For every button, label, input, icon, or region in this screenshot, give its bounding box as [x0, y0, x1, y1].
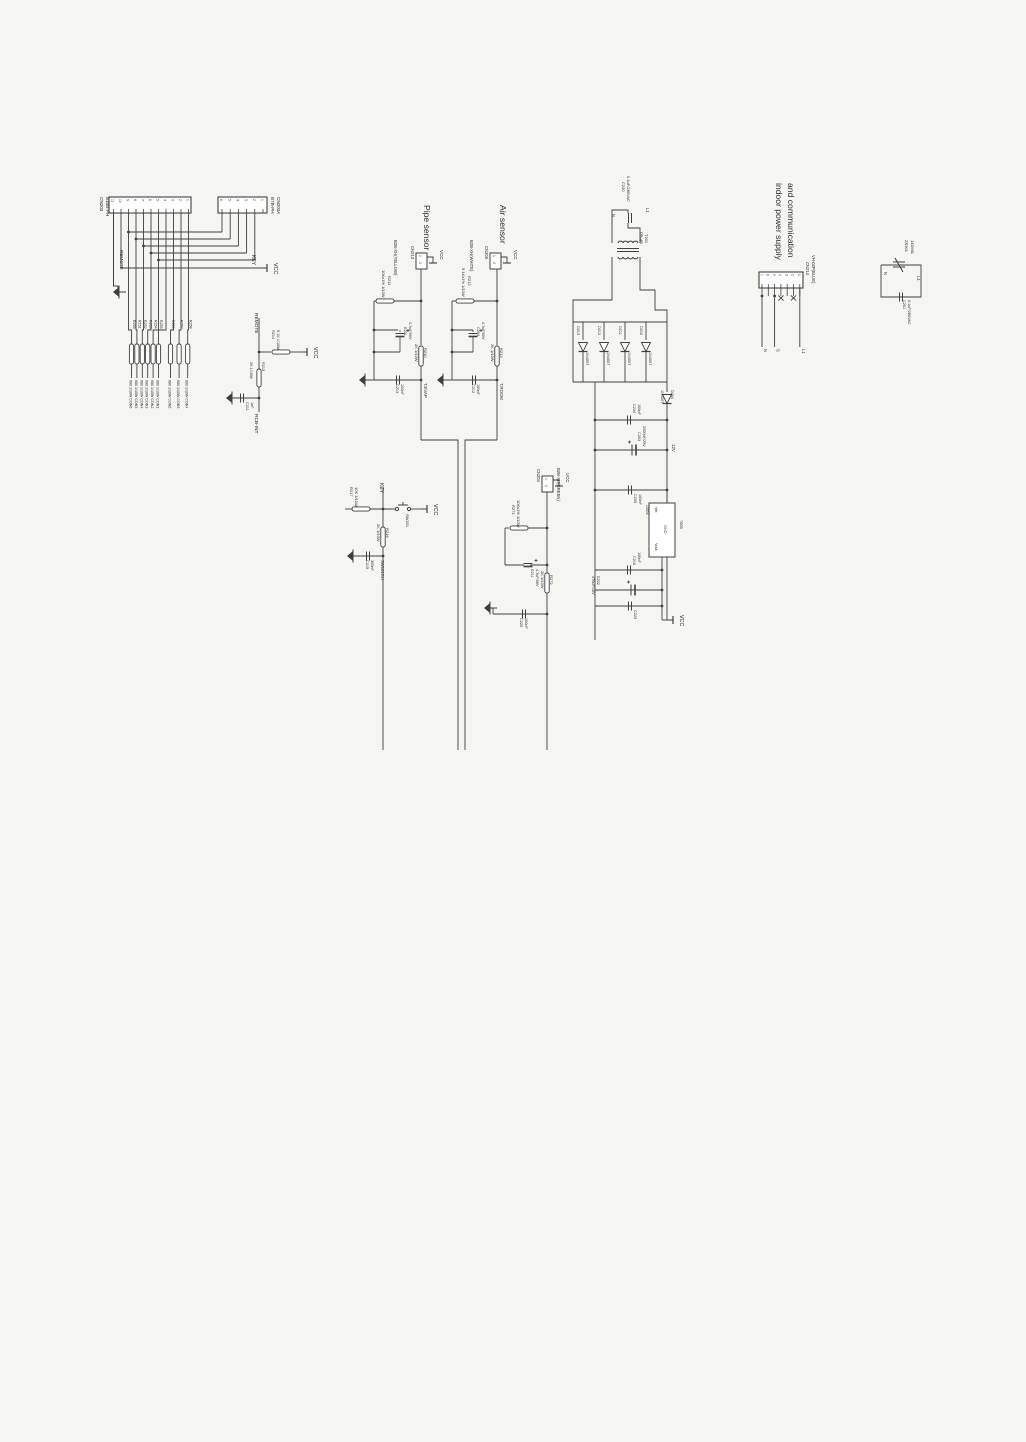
- svg-text:REMOTE: REMOTE: [119, 250, 124, 270]
- svg-text:6: 6: [766, 274, 770, 276]
- svg-text:Vout: Vout: [654, 543, 658, 552]
- svg-text:C212: C212: [471, 384, 475, 393]
- svg-text:C203: C203: [637, 432, 641, 441]
- svg-text:7: 7: [141, 199, 145, 201]
- svg-text:10: 10: [118, 199, 122, 203]
- svg-text:Pipe sensor: Pipe sensor: [422, 205, 432, 251]
- svg-text:2: 2: [178, 199, 182, 201]
- svg-text:B10B-PH: B10B-PH: [105, 197, 110, 216]
- svg-text:2: 2: [252, 199, 256, 201]
- svg-text:100nF: 100nF: [638, 494, 642, 505]
- svg-text:D204: D204: [670, 390, 674, 399]
- svg-text:L1: L1: [801, 349, 806, 354]
- svg-text:5: 5: [156, 199, 160, 201]
- svg-text:VCC: VCC: [272, 263, 278, 274]
- svg-text:1: 1: [186, 199, 190, 201]
- svg-text:indoor power supply: indoor power supply: [774, 183, 784, 261]
- svg-text:SW101CH: SW101CH: [380, 560, 385, 580]
- svg-text:R211: R211: [387, 276, 392, 286]
- svg-text:680 1/10W CON3: 680 1/10W CON3: [145, 380, 149, 408]
- svg-text:1nF: 1nF: [250, 402, 254, 409]
- svg-text:1: 1: [797, 274, 801, 276]
- svg-text:4.7uF/50V: 4.7uF/50V: [481, 322, 485, 340]
- svg-text:2K 1/10W: 2K 1/10W: [490, 344, 495, 362]
- svg-text:7: 7: [759, 274, 763, 276]
- svg-text:4.7uF/50V: 4.7uF/50V: [408, 322, 412, 340]
- svg-text:D213: D213: [576, 326, 580, 335]
- svg-text:4.7uF/50V: 4.7uF/50V: [535, 569, 539, 587]
- svg-text:VCC: VCC: [513, 250, 518, 260]
- svg-text:C213: C213: [395, 384, 399, 393]
- svg-text:12V: 12V: [671, 444, 676, 452]
- svg-text:R258: R258: [188, 320, 192, 329]
- svg-text:10Kx1% 1/10W: 10Kx1% 1/10W: [381, 270, 386, 298]
- svg-text:Air sensor: Air sensor: [498, 205, 508, 244]
- svg-text:C215: C215: [365, 560, 369, 569]
- svg-text:1N4007: 1N4007: [585, 352, 589, 365]
- svg-text:Vin: Vin: [654, 507, 658, 512]
- svg-text:6: 6: [148, 199, 152, 201]
- svg-text:7805: 7805: [679, 520, 684, 530]
- svg-text:VCC: VCC: [565, 473, 570, 483]
- svg-text:CN203: CN203: [99, 197, 104, 212]
- svg-text:E201: E201: [403, 327, 407, 336]
- svg-text:R253: R253: [148, 320, 152, 329]
- svg-text:E211: E211: [530, 569, 534, 578]
- svg-text:1: 1: [492, 255, 496, 257]
- svg-text:T.EVAP: T.EVAP: [423, 383, 428, 398]
- svg-text:VH-03P(BLUE): VH-03P(BLUE): [811, 255, 816, 284]
- svg-text:11: 11: [111, 199, 115, 203]
- svg-text:680 1/10W CON4: 680 1/10W CON4: [139, 380, 143, 408]
- svg-text:6: 6: [219, 199, 223, 201]
- svg-text:R257: R257: [180, 320, 184, 329]
- svg-text:10Kx1% 1/10W: 10Kx1% 1/10W: [516, 500, 521, 528]
- svg-text:N: N: [883, 272, 888, 275]
- svg-text:D212: D212: [597, 326, 601, 335]
- svg-text:1: 1: [260, 199, 264, 201]
- svg-text:R210: R210: [423, 348, 428, 358]
- svg-text:100nF: 100nF: [637, 404, 641, 415]
- svg-text:B2B-XH(YELLOW): B2B-XH(YELLOW): [393, 240, 398, 276]
- svg-text:R216: R216: [385, 528, 390, 538]
- svg-text:D210: D210: [639, 326, 643, 335]
- svg-text:2K 1/10W: 2K 1/10W: [540, 571, 545, 589]
- svg-text:0.1uF/280VAC: 0.1uF/280VAC: [626, 176, 631, 202]
- svg-text:T201: T201: [644, 234, 649, 244]
- svg-text:CN203A: CN203A: [276, 197, 281, 215]
- svg-text:C211: C211: [245, 402, 249, 411]
- svg-text:2200uF/25V: 2200uF/25V: [642, 426, 646, 447]
- svg-text:N: N: [763, 349, 768, 352]
- svg-text:3: 3: [171, 199, 175, 201]
- svg-text:2: 2: [418, 262, 422, 264]
- svg-text:and communication: and communication: [786, 183, 796, 258]
- svg-text:100nF: 100nF: [637, 552, 641, 563]
- svg-text:2K 1/10W: 2K 1/10W: [414, 344, 419, 362]
- svg-text:R217: R217: [349, 487, 354, 497]
- svg-text:680 1/10W CON6: 680 1/10W CON6: [129, 380, 133, 408]
- svg-text:VCC: VCC: [439, 250, 444, 260]
- svg-text:R254: R254: [154, 320, 158, 329]
- svg-text:VCC: VCC: [312, 347, 318, 358]
- svg-text:5.1K 1/10W: 5.1K 1/10W: [276, 330, 280, 350]
- svg-text:KEY: KEY: [250, 255, 256, 266]
- svg-text:C205: C205: [633, 494, 637, 503]
- svg-text:1N4007: 1N4007: [627, 352, 631, 365]
- svg-text:2: 2: [492, 262, 496, 264]
- svg-text:R272: R272: [549, 575, 554, 585]
- svg-text:B2B-XH(GREEN): B2B-XH(GREEN): [556, 468, 561, 501]
- svg-text:C251: C251: [902, 300, 906, 309]
- svg-text:0.1uF/280VAC: 0.1uF/280VAC: [907, 300, 911, 325]
- svg-text:680 1/10W CON1: 680 1/10W CON1: [156, 380, 160, 408]
- svg-text:R271: R271: [511, 505, 516, 515]
- svg-text:L1: L1: [916, 276, 921, 281]
- svg-text:L1: L1: [645, 208, 650, 213]
- svg-text:2K 1/10W: 2K 1/10W: [249, 362, 253, 379]
- svg-text:VCC: VCC: [432, 504, 438, 515]
- svg-text:E202: E202: [596, 576, 600, 585]
- svg-text:VCC: VCC: [678, 615, 684, 626]
- svg-text:100nF: 100nF: [476, 384, 480, 395]
- svg-text:1N4007: 1N4007: [660, 390, 664, 403]
- svg-text:3: 3: [244, 199, 248, 201]
- svg-text:CN204: CN204: [536, 469, 541, 483]
- svg-text:100nF: 100nF: [400, 384, 404, 395]
- svg-text:2: 2: [791, 274, 795, 276]
- svg-text:470uF/16V: 470uF/16V: [591, 576, 595, 595]
- svg-text:C223: C223: [633, 610, 637, 619]
- svg-text:R251: R251: [138, 320, 142, 329]
- svg-text:C220: C220: [621, 182, 626, 192]
- svg-text:C210: C210: [632, 556, 636, 565]
- svg-text:S: S: [776, 349, 781, 352]
- svg-text:B2B-XH(WHITE): B2B-XH(WHITE): [469, 240, 474, 272]
- svg-text:R256: R256: [171, 320, 175, 329]
- svg-text:R215: R215: [261, 362, 265, 371]
- svg-text:8: 8: [133, 199, 137, 201]
- svg-text:5: 5: [772, 274, 776, 276]
- svg-text:1: 1: [418, 255, 422, 257]
- svg-text:CN214: CN214: [805, 262, 810, 276]
- svg-text:REMOTE: REMOTE: [253, 313, 259, 334]
- svg-text:5: 5: [227, 199, 231, 201]
- svg-text:C225: C225: [519, 618, 523, 627]
- svg-text:4: 4: [236, 199, 240, 201]
- svg-text:4: 4: [163, 199, 167, 201]
- svg-text:D211: D211: [618, 326, 622, 335]
- svg-text:680 1/10W CON2: 680 1/10W CON2: [150, 380, 154, 408]
- svg-text:GND: GND: [663, 525, 667, 534]
- svg-text:R213: R213: [499, 348, 504, 358]
- svg-text:680 1/10W CON6: 680 1/10W CON6: [168, 380, 172, 408]
- svg-text:2: 2: [544, 485, 548, 487]
- svg-text:100nF: 100nF: [524, 618, 528, 629]
- svg-text:1: 1: [544, 478, 548, 480]
- svg-text:680 1/10W CON5: 680 1/10W CON5: [176, 380, 180, 408]
- svg-text:9: 9: [126, 199, 130, 201]
- svg-text:1N4007: 1N4007: [606, 352, 610, 365]
- svg-text:C204: C204: [476, 327, 480, 336]
- svg-text:4: 4: [778, 274, 782, 276]
- svg-text:2K 1/10W: 2K 1/10W: [376, 524, 381, 542]
- svg-text:R212: R212: [467, 276, 472, 286]
- svg-text:B7B-PH: B7B-PH: [270, 197, 275, 214]
- svg-text:C234: C234: [632, 404, 636, 413]
- svg-text:SW201: SW201: [405, 514, 410, 528]
- svg-text:1N4007: 1N4007: [648, 352, 652, 365]
- svg-text:T.ROOM: T.ROOM: [499, 383, 504, 400]
- svg-text:10K 1/10W: 10K 1/10W: [354, 487, 359, 507]
- svg-text:680 1/10W CON5: 680 1/10W CON5: [134, 380, 138, 408]
- svg-text:5.1Kx1% 1/10W: 5.1Kx1% 1/10W: [461, 268, 466, 297]
- svg-text:CN213: CN213: [410, 246, 415, 260]
- svg-text:R255: R255: [159, 320, 163, 329]
- svg-text:R214: R214: [271, 330, 275, 339]
- svg-text:680 1/10W CON4: 680 1/10W CON4: [185, 380, 189, 408]
- svg-text:300nF: 300nF: [370, 560, 374, 571]
- svg-text:3: 3: [784, 274, 788, 276]
- svg-text:R252: R252: [143, 320, 147, 329]
- svg-text:U204: U204: [645, 505, 650, 515]
- svg-text:14D561: 14D561: [910, 240, 915, 255]
- svg-text:RCB-INT: RCB-INT: [253, 414, 259, 434]
- svg-text:ZR201: ZR201: [904, 240, 909, 253]
- svg-text:CN205: CN205: [484, 246, 489, 260]
- svg-text:R250: R250: [132, 320, 136, 329]
